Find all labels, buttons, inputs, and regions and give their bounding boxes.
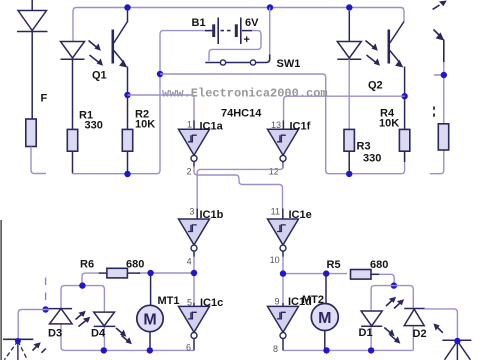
svg-text:2: 2 [186,167,191,177]
node MT1 branch [147,270,153,276]
diode D1 [361,311,382,326]
light arrows from D3 [76,311,91,327]
node far-right [441,72,447,78]
wire battery minus to left ground rail [73,31,214,174]
pin 9 [274,297,283,307]
pin 4 [187,251,194,266]
node sensor wire [42,306,48,312]
op-amp U1 gate IC1e [268,219,299,251]
node right ground rail at R3 [346,171,352,177]
node Q2 emitter [401,93,407,99]
label IC1a [200,120,224,132]
node box top R5 [391,282,397,288]
node bottom-right LED [454,338,460,344]
node MT2 bottom rail [323,347,329,353]
diode D2 [404,309,424,326]
svg-text:R3: R3 [357,141,371,153]
svg-text:IC1d: IC1d [288,296,312,308]
label R3 330 [357,141,382,165]
light arrow far-right top (cropped) [433,1,447,10]
wire R6 right lead [127,272,140,274]
label SW1 [277,58,301,70]
wire R2 leads [127,95,129,174]
label Q1 [92,70,107,82]
light arrows from D1 [384,328,400,344]
svg-text:R6: R6 [80,258,94,270]
node IC1e out / IC1d in [280,270,286,276]
wire far-right column [430,62,444,174]
photo frame edge line [0,220,2,360]
label B1 [192,17,206,29]
label R6 680 [80,258,144,270]
pin 12 [269,162,283,177]
label battery plus [244,34,250,46]
svg-text:10K: 10K [135,119,155,131]
wire R3 bottom lead [348,151,350,174]
label IC1f [290,120,311,132]
svg-text:3: 3 [189,206,194,216]
wire IC1a output to IC1e input [194,166,283,209]
label R2 10K [135,109,155,131]
pin 3 [189,206,197,219]
label F (cropped) [41,93,48,105]
light arrow from bottom-left LED [33,342,46,353]
svg-text:330: 330 [363,153,381,165]
resistor R6 [107,268,128,278]
watermark [162,87,328,101]
light arrows from D2 [386,297,404,309]
svg-text:D1: D1 [359,327,373,339]
node top rail at Q1 collector [124,4,130,10]
label IC1c [200,297,223,309]
switch SW1 [205,55,269,66]
dashed coupling line [45,278,47,303]
svg-text:IC1c: IC1c [200,297,223,309]
svg-text:680: 680 [370,259,388,271]
node D1 bottom rail [368,347,374,353]
wire IC1b output node [138,257,194,304]
pin 13 [271,120,283,130]
light arrows into Q2 [366,41,381,66]
svg-text:IC1e: IC1e [289,209,312,221]
transistor Q1 [113,8,128,96]
svg-text:SW1: SW1 [277,58,301,70]
pin 2 [186,162,194,177]
svg-text:M: M [318,310,331,327]
label D1 [359,327,373,339]
node top rail at Q2 LED [346,4,352,10]
pin 1 [187,120,194,130]
light arrow from bottom-right LED [433,323,443,332]
label D2 [413,328,427,340]
node battery minus branch [157,71,163,77]
resistor far-left (no value shown) [26,119,36,147]
node IC1b out / IC1c in [191,270,197,276]
svg-text:Q2: Q2 [368,80,383,92]
wire Q2 LED to R3 [348,59,350,129]
svg-text:B1: B1 [192,17,206,29]
resistor R2 [122,129,132,151]
svg-text:MT1: MT1 [158,295,180,307]
svg-text:+: + [244,34,250,46]
svg-text:74HC14: 74HC14 [221,108,262,120]
label R5 680 [327,259,389,271]
svg-text:11: 11 [271,206,280,216]
label IC1b [200,209,224,221]
label 74HC14 [221,108,262,120]
pin 10 [270,251,283,265]
wire R1 leads [72,59,74,173]
wire MT1 top lead [150,273,152,305]
svg-text:6V: 6V [245,17,259,29]
wire Q2 emitter to IC1f input [284,96,405,121]
pin 5 [187,298,194,308]
transistor far-right emitter (cropped) [434,30,445,63]
node D4 bottom rail [101,347,107,353]
node box top R6 [79,282,85,288]
diode D3 [49,309,73,324]
label R1 330 [79,110,103,132]
label R4 10K [379,108,399,130]
svg-text:D2: D2 [413,328,427,340]
svg-text:M: M [143,312,156,329]
svg-text:10K: 10K [379,118,399,130]
op-amp U1 gate IC1a [179,129,210,161]
svg-text:12: 12 [269,166,279,176]
pin 8 [273,339,283,354]
svg-text:13: 13 [271,120,281,130]
wire R5 right lead to D1 D2 box [371,273,380,275]
op-amp U1 gate IC1c [179,306,210,338]
transistor Q2 [389,22,405,97]
wire MT2 bottom lead [324,331,326,351]
svg-text:F: F [41,93,48,105]
svg-text:10: 10 [270,255,280,265]
resistor R3 [344,129,354,151]
wire D1 D2 parallel box [283,286,413,351]
label Q2 [368,80,383,92]
pin 11 [271,206,283,219]
wire switch to top rail [269,8,271,56]
svg-text:330: 330 [85,120,103,132]
wire R6 to D3 D4 box top [82,273,99,286]
svg-text:IC1b: IC1b [200,209,224,221]
label IC1d [288,296,312,308]
pin 6 [186,339,194,353]
wire D3 D4 parallel box [61,286,194,351]
wire R4 leads [404,96,406,162]
node top rail at switch [267,4,273,10]
node MT1 bottom rail [147,347,153,353]
label IC1e [289,209,312,221]
battery B1 [205,18,252,45]
wire MT1 bottom lead [149,332,151,351]
wire far-left column [31,0,33,119]
op-amp U1 gate IC1f [268,129,299,161]
svg-text:6: 6 [186,342,191,352]
wire IC1e output node [283,257,347,304]
resistor R1 [67,129,77,151]
op-amp U1 gate IC1d [268,306,299,338]
light arrows from D4 [116,328,132,344]
svg-text:www.Electronica2000.com: www.Electronica2000.com [162,87,328,101]
label MT1 [158,295,180,307]
svg-text:4: 4 [187,256,192,266]
label MT2 [302,294,324,306]
svg-text:680: 680 [126,258,144,270]
LED bottom-left (cropped) [3,339,33,360]
resistor R4 [399,129,409,151]
wire IC1f output to IC1b input [197,163,283,209]
LED emitter left of Q2 [337,11,361,59]
svg-text:1: 1 [187,120,192,130]
svg-text:8: 8 [273,344,278,354]
wire far-left resistor to open end [31,147,46,174]
wire to bottom-left LED [18,310,48,340]
svg-text:Q1: Q1 [92,70,107,82]
node bottom-left LED [15,338,21,344]
svg-text:9: 9 [274,297,279,307]
svg-text:IC1f: IC1f [290,120,311,132]
wire top supply rail [73,8,404,42]
node left ground rail at R2 [124,171,130,177]
svg-text:IC1a: IC1a [200,120,224,132]
LED emitter left of Q1 [61,42,85,60]
label D4 [91,327,106,339]
resistor far-right (cropped label) [438,124,448,150]
op-amp U1 gate IC1b [179,219,210,251]
node MT2 branch [323,270,329,276]
wire R6 left lead to LED box [98,272,107,274]
wire MT2 top lead [325,274,327,304]
diode D4 [94,312,116,326]
wire Q1 emitter to IC1a input [128,95,195,121]
wire battery to switch [209,31,261,61]
LED bottom-right (cropped) [442,340,471,360]
label fragment far-right [433,107,435,117]
wire D2 to bottom-right LED [425,309,458,340]
resistor R5 [351,270,372,280]
svg-text:D3: D3 [48,327,62,339]
svg-text:D4: D4 [91,327,106,339]
node Q1 emitter [124,92,130,98]
motor MT2 [311,304,338,331]
light arrows into Q1 [89,41,104,66]
label 6V [245,17,259,29]
wire ground link rail [160,74,405,174]
svg-text:R5: R5 [327,259,341,271]
label D3 [48,327,62,339]
motor MT1 [137,305,163,331]
wire R5 to box top [379,274,394,285]
diode far-left [17,11,48,32]
